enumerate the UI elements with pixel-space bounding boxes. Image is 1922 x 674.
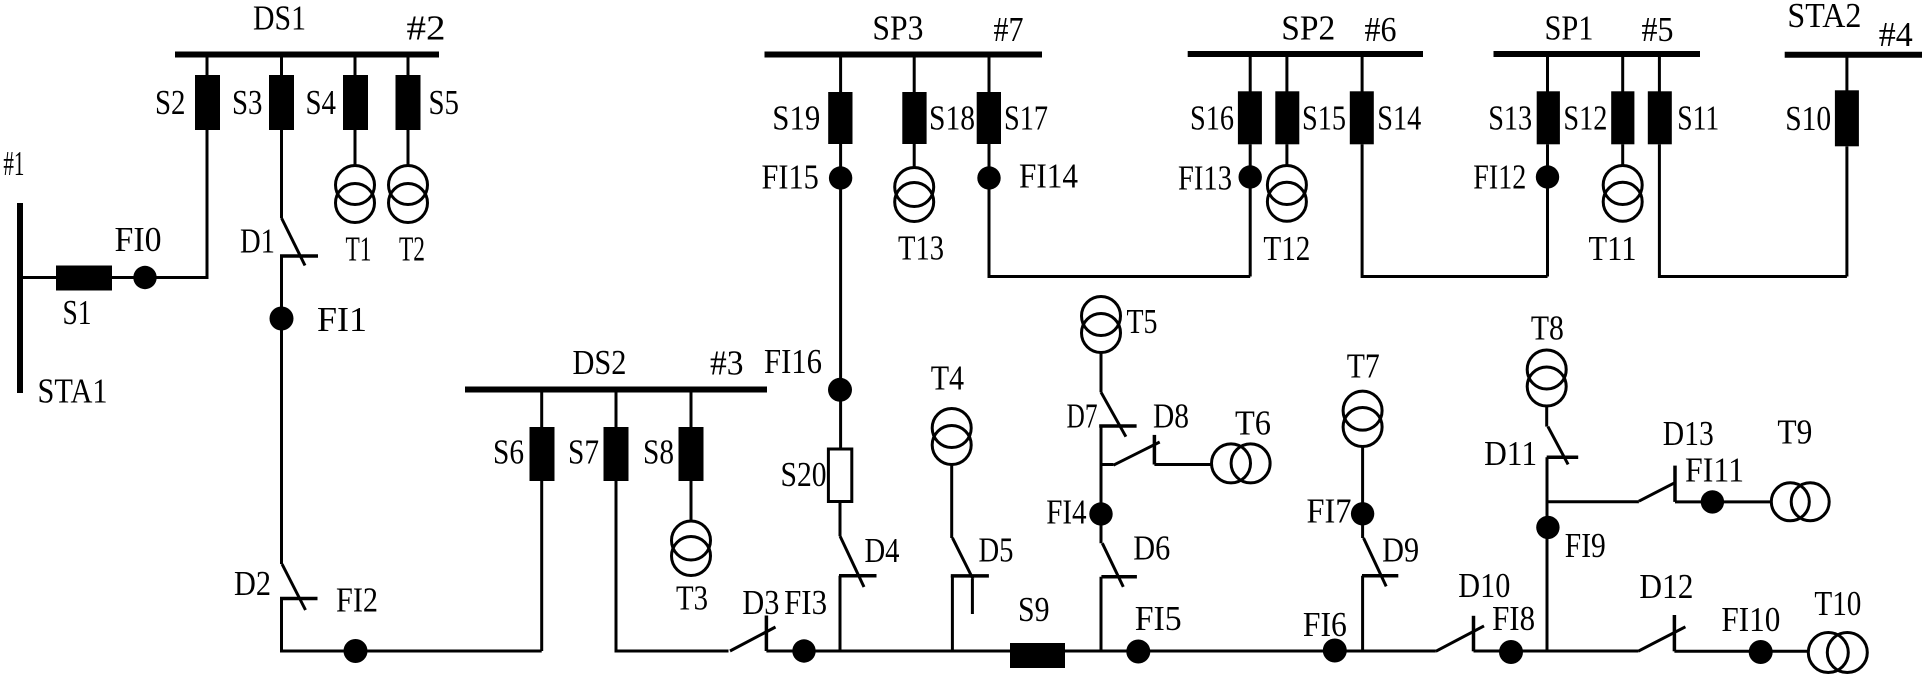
svg-text:STA2: STA2 (1787, 0, 1861, 35)
svg-text:S1: S1 (63, 293, 92, 332)
svg-text:S9: S9 (1018, 590, 1050, 629)
wire S5 to T2 (407, 130, 410, 166)
switch S15 (1285, 56, 1288, 94)
switch S11 (1658, 56, 1661, 94)
bus STA2 (1785, 52, 1922, 58)
transformer T11 (1603, 166, 1642, 205)
svg-text:FI4: FI4 (1046, 493, 1086, 532)
wire S7 to D3 (616, 481, 729, 651)
fault indicator FI10 (1749, 640, 1773, 664)
wire branch to D13 (1548, 500, 1639, 503)
svg-text:D6: D6 (1133, 529, 1170, 568)
switch S19 (839, 56, 842, 95)
svg-text:#3: #3 (710, 344, 744, 383)
svg-text:S6: S6 (493, 433, 524, 472)
svg-text:FI11: FI11 (1685, 450, 1744, 489)
svg-text:T13: T13 (898, 229, 944, 268)
svg-text:T4: T4 (931, 358, 964, 397)
wire D4 to feeder (839, 576, 842, 651)
disconnector D5 (952, 538, 973, 579)
svg-text:S8: S8 (643, 433, 674, 472)
transformer T2 (389, 166, 428, 205)
transformer T5 (1082, 297, 1121, 336)
switch S12 (1621, 56, 1624, 94)
svg-text:S12: S12 (1563, 99, 1607, 138)
wire S6 to feeder (540, 481, 543, 651)
bus SP2 (1188, 51, 1423, 57)
fault indicator FI6 (1323, 639, 1347, 663)
svg-text:FI5: FI5 (1135, 599, 1182, 638)
svg-text:D1: D1 (240, 221, 275, 260)
wire S20 to D4 (839, 502, 842, 537)
switch S16 (1249, 56, 1252, 94)
svg-text:FI16: FI16 (764, 342, 822, 381)
disconnector D11 (1548, 427, 1568, 465)
svg-text:S7: S7 (568, 433, 599, 472)
bus DS2 (465, 387, 767, 393)
svg-text:S16: S16 (1190, 99, 1234, 138)
switch S2 (206, 56, 209, 80)
switch S3 (280, 56, 283, 80)
bus DS1 (175, 52, 439, 58)
wire D1 to D2 (280, 256, 283, 564)
svg-text:FI3: FI3 (784, 583, 827, 622)
wire D11 to feeder (1546, 457, 1549, 651)
svg-text:#7: #7 (994, 10, 1024, 49)
svg-text:T3: T3 (676, 579, 708, 618)
fault indicator FI13 (1239, 165, 1262, 188)
switch S9 (1010, 643, 1065, 668)
svg-text:T2: T2 (399, 230, 425, 269)
wire STA1 to S2 (20, 130, 207, 278)
switch S7 (615, 391, 618, 430)
svg-text:T7: T7 (1347, 346, 1380, 385)
svg-text:S2: S2 (155, 83, 186, 122)
svg-text:FI6: FI6 (1303, 605, 1347, 644)
transformer T7 (1343, 391, 1382, 430)
feeder wire D3 to D10 (766, 650, 1435, 653)
svg-text:FI2: FI2 (336, 581, 378, 620)
disconnector D2 (282, 564, 306, 610)
disconnector D8 (1101, 463, 1113, 466)
fault indicator FI11 (1701, 490, 1724, 513)
fault indicator FI3 (792, 639, 815, 662)
svg-text:FI15: FI15 (762, 157, 819, 196)
svg-text:S14: S14 (1377, 99, 1421, 138)
switch S8 (690, 391, 693, 430)
fault indicator FI16 (828, 378, 852, 402)
wire D6 to feeder (1100, 577, 1103, 651)
fault indicator FI9 (1536, 516, 1559, 539)
transformer T9 (1771, 483, 1809, 521)
svg-text:T6: T6 (1235, 404, 1271, 443)
fault indicator FI12 (1536, 165, 1559, 188)
svg-text:SP3: SP3 (872, 9, 923, 48)
transformer T12 (1267, 166, 1306, 205)
switch S10 (1845, 57, 1848, 93)
svg-text:FI14: FI14 (1019, 157, 1078, 196)
svg-text:STA1: STA1 (38, 372, 108, 411)
svg-text:#5: #5 (1642, 10, 1674, 49)
svg-text:T10: T10 (1814, 584, 1861, 623)
disconnector D13 (1639, 482, 1676, 501)
fault indicator FI15 (829, 166, 852, 189)
svg-text:FI12: FI12 (1473, 157, 1526, 196)
svg-text:S3: S3 (232, 83, 263, 122)
svg-text:#1: #1 (3, 144, 24, 183)
svg-text:DS2: DS2 (573, 343, 627, 382)
wire S11 to S10 tie (1659, 144, 1847, 276)
svg-text:D2: D2 (234, 564, 271, 603)
wire S18 to T13 (913, 144, 916, 168)
svg-text:T9: T9 (1777, 413, 1812, 452)
fault indicator FI4 (1089, 502, 1112, 525)
feeder wire D12 to T10 (1674, 650, 1808, 653)
wire T8 to D11 (1545, 406, 1548, 427)
transformer T4 (932, 409, 971, 448)
fault indicator FI1 (270, 307, 294, 331)
wire T4 to D5 (950, 465, 953, 539)
disconnector D7 (1101, 392, 1126, 437)
wire S13 to tie (1546, 144, 1549, 276)
svg-text:FI0: FI0 (115, 220, 162, 259)
disconnector D4 (840, 536, 864, 587)
fault indicator FI2 (344, 639, 368, 663)
svg-text:SP1: SP1 (1545, 9, 1594, 48)
svg-text:D4: D4 (865, 531, 900, 570)
switch S18 (913, 56, 916, 95)
disconnector D12 (1638, 627, 1685, 652)
svg-text:S13: S13 (1488, 99, 1532, 138)
switch S5 (407, 56, 410, 80)
disconnector D9 (1364, 538, 1387, 586)
wire D5 to feeder (951, 576, 954, 651)
wire D9 to feeder (1361, 576, 1364, 651)
svg-text:T1: T1 (346, 230, 372, 269)
svg-text:S4: S4 (306, 83, 337, 122)
svg-text:SP2: SP2 (1281, 9, 1335, 48)
svg-text:T8: T8 (1531, 308, 1564, 347)
switch S1 (56, 266, 112, 291)
svg-text:D9: D9 (1382, 531, 1419, 570)
switch S4 (354, 56, 357, 80)
wire T7 to D9 (1361, 447, 1364, 539)
svg-text:#2: #2 (407, 9, 446, 48)
svg-text:T12: T12 (1263, 229, 1310, 268)
wire D13 to T9 (1675, 500, 1771, 503)
wire S3 down (280, 130, 283, 218)
transformer T13 (895, 168, 934, 207)
bus SP3 (765, 52, 1043, 58)
fault indicator FI14 (977, 166, 1000, 189)
svg-text:D5: D5 (979, 531, 1014, 570)
fault indicator FI7 (1351, 502, 1374, 525)
svg-text:#4: #4 (1879, 15, 1913, 54)
svg-text:S18: S18 (929, 99, 975, 138)
disconnector D3 (730, 627, 776, 651)
svg-text:FI9: FI9 (1565, 526, 1606, 565)
wire T5 to D7 (1100, 353, 1103, 393)
switch S17 (988, 56, 991, 95)
svg-text:FI8: FI8 (1492, 599, 1535, 638)
svg-text:#6: #6 (1365, 10, 1397, 49)
svg-text:S5: S5 (429, 83, 460, 122)
disconnector D10 (1436, 626, 1484, 651)
wire S17 to S16 tie (989, 144, 1250, 277)
wire D7 to D6 (1100, 426, 1103, 543)
svg-text:D13: D13 (1663, 414, 1714, 453)
svg-text:S15: S15 (1302, 99, 1346, 138)
feeder wire D10 to D12 (1474, 650, 1639, 653)
disconnector D6 (1102, 543, 1123, 587)
wire S14 to S13 tie (1362, 144, 1547, 276)
svg-text:S11: S11 (1677, 99, 1719, 138)
wire D2 to S6 feeder (282, 599, 542, 652)
svg-text:D3: D3 (742, 583, 779, 622)
svg-text:FI13: FI13 (1178, 158, 1232, 197)
svg-text:T5: T5 (1127, 302, 1158, 341)
switch S14 (1361, 56, 1364, 94)
disconnector D1 (282, 218, 306, 266)
transformer T6 (1212, 444, 1251, 483)
svg-text:D11: D11 (1484, 434, 1537, 473)
svg-text:DS1: DS1 (253, 0, 306, 38)
bus SP1 (1494, 51, 1701, 57)
switch S20 (828, 449, 851, 502)
wire S15 to T12 (1285, 144, 1288, 166)
svg-text:S19: S19 (772, 99, 820, 138)
svg-text:FI7: FI7 (1307, 491, 1352, 530)
fault indicator FI0 (133, 266, 156, 289)
svg-text:S17: S17 (1004, 99, 1048, 138)
svg-text:FI1: FI1 (317, 300, 367, 339)
wire S19 chain (839, 144, 842, 449)
svg-text:FI10: FI10 (1721, 600, 1780, 639)
transformer T10 (1808, 633, 1848, 673)
fault indicator FI8 (1499, 640, 1523, 664)
bus STA1 (17, 203, 23, 393)
transformer T1 (336, 166, 375, 205)
switch S6 (540, 391, 543, 430)
wire S10 to tie (1845, 146, 1848, 276)
wire S8 to T3 (690, 481, 693, 522)
switch S13 (1546, 56, 1549, 94)
svg-text:D8: D8 (1153, 397, 1189, 436)
fault indicator FI5 (1126, 640, 1150, 664)
wire S4 to T1 (354, 130, 357, 166)
svg-text:D7: D7 (1067, 397, 1098, 436)
svg-text:S10: S10 (1785, 99, 1831, 138)
svg-text:D12: D12 (1639, 567, 1693, 606)
transformer T3 (672, 521, 711, 560)
transformer T8 (1527, 350, 1566, 389)
wire S16 to tie (1249, 144, 1252, 276)
wire S12 to T11 (1621, 144, 1624, 166)
svg-text:T11: T11 (1589, 229, 1637, 268)
svg-text:S20: S20 (781, 455, 827, 494)
